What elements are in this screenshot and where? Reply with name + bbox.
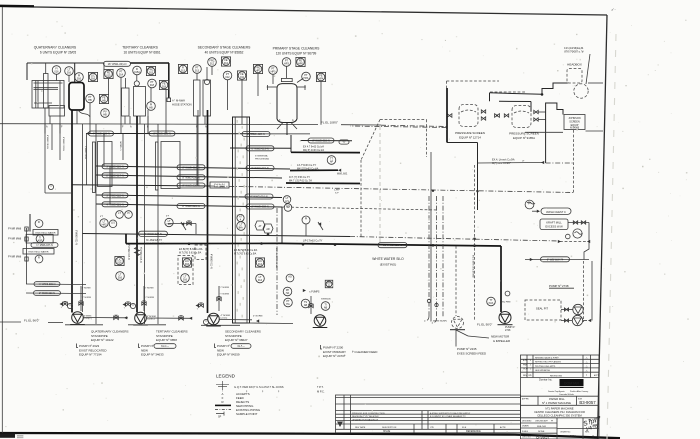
svg-text:FILE: FILE [462,427,467,429]
kraft mill valves [568,221,589,224]
svg-text:½″: ½″ [343,140,346,144]
svg-text:HB: HB [88,99,92,102]
pipe label oval 6" WB WW-74 [541,257,570,262]
svg-text:EXIST MILL WATER: EXIST MILL WATER [36,232,56,235]
svg-text:DWG. NO.: DWG. NO. [522,436,532,438]
primary vessel [267,78,306,135]
exist mill water box 2 [23,249,54,255]
svg-text:‽: ‽ [586,374,587,377]
instrument square FE-011 [237,71,246,80]
svg-text:EQUIP Nº 6858: EQUIP Nº 6858 [156,338,177,342]
wash chest label [532,208,571,214]
svg-text:NONE: NONE [538,431,545,433]
quaternary pump [60,301,129,324]
svg-text:SEAL PIT: SEAL PIT [536,307,548,311]
quaternary bank outer rect [32,81,64,109]
svg-text:B‽L: B‽L [529,374,532,377]
pipe run y185 to right side [72,185,573,193]
small circ near pump [500,291,511,303]
instrument square FE-HP0 [296,57,305,66]
seal pit box [525,300,561,320]
mill water riser [25,227,28,284]
instrument square FE-015 [104,69,113,78]
svg-text:16″ WW1-001-N: 16″ WW1-001-N [108,62,127,66]
svg-text:C=O(C): C=O(C) [147,319,155,321]
instrument square BW [325,280,333,288]
svg-text:8″ WW2-025-N: 8″ WW2-025-N [153,132,170,136]
tertiary cluster drops [125,88,166,134]
drawing border left [1,7,3,433]
mill water tap 1 label [8,228,22,231]
svg-text:016: 016 [67,72,72,75]
svg-text:016: 016 [91,78,96,81]
new motor leader [456,330,489,338]
instrument square FE-012 [221,57,230,66]
svg-text:EQUIP Nº 84259: EQUIP Nº 84259 [217,353,240,357]
vertical label q3 [62,137,64,151]
svg-text:PROCESS⁄3A: PROCESS⁄3A [255,158,269,161]
pipe run y166 [96,166,290,169]
svg-text:¾″ MW6-037-N: ¾″ MW6-037-N [36,244,53,247]
main run size text 1 [146,239,165,245]
svg-text:P‽ WR MW6: P‽ WR MW6 [8,256,22,259]
flex coupling zigzag [135,247,140,256]
svg-text:4″WW6: 4″WW6 [84,315,92,317]
svg-text:¾″ VALVE: ¾″ VALVE [120,140,123,150]
white water silo label [372,257,404,267]
mill water meter box [26,234,53,243]
svg-text:‽‽M: ‽‽M [523,363,527,366]
svg-text:APP‽‽D: APP‽‽D [522,398,530,401]
pipe label oval 4" WW2-021-N [102,202,128,207]
svg-text:EXCESS W.W: EXCESS W.W [545,225,563,229]
mill water tap 2 label [8,238,22,241]
tertiary drop 2 [147,110,149,134]
instrument bubble mid116 [116,272,125,281]
pipe run y195 [96,195,282,198]
svg-text:WWL 600.: WWL 600. [337,174,348,176]
valve line y223 [168,221,196,234]
new motor label [491,335,510,343]
instrument bubble PT-HB [86,94,95,103]
main run size text 3 [234,249,258,256]
svg-text:4″‽: 4″‽ [100,215,103,218]
pump 2738 label [549,284,574,288]
thick pipe y152 [291,151,360,153]
tertiary standpipe column [145,124,159,324]
pipe label oval mill 037 [31,243,58,248]
svg-text:CENTRI CLEANERS P& I DIAGRAM: CENTRI CLEANERS P& I DIAGRAM FOR [534,410,585,414]
drawing border right [598,15,608,439]
instrument square FRC-015 [146,66,155,75]
instrument bubble PT-HA [284,298,293,307]
svg-text:B CONN‽CT BY OTHER SEGMENT: B CONN‽CT BY OTHER SEGMENT ‽T⁄ [430,415,466,418]
pumps note [303,289,320,294]
secondary standpipe label [225,330,261,343]
mill water tap 3 label [8,256,22,259]
instrument square FI-013 [178,64,187,73]
instrument bubble AO [286,274,294,282]
kraft mill box [540,219,568,230]
svg-text:Pacifica Alba Cawnay: Pacifica Alba Cawnay [570,390,588,393]
svg-text:¾″ NORM: ¾″ NORM [220,286,230,289]
svg-text:HB: HB [103,114,107,117]
secondary cluster drops [197,67,242,187]
svg-text:PRESSURE SCREEN: PRESSURE SCREEN [455,131,485,135]
issue / reference table [336,395,521,433]
svg-text:4″WW2-033-N: 4″WW2-033-N [62,137,64,151]
svg-text:HOSE STATION: HOSE STATION [172,103,192,107]
tertiary bank rects [122,75,146,116]
svg-text:P⁄PING R⁄L FOR CONSTRUCTION: P⁄PING R⁄L FOR CONSTRUCTION [352,413,385,415]
svg-text:8″ WW2-026-N: 8″ WW2-026-N [182,204,199,208]
pipe run y175 [96,175,282,178]
pipe label oval 3" WW2-022-N [102,193,128,198]
screen dashed floor enclosure [350,81,525,128]
secondary bank rects [194,67,211,116]
svg-text:G.Q.T. PER DAY‽ U.S.G.P.M.‽ S: G.Q.T. PER DAY‽ U.S.G.P.M.‽ SL.CONS [234,385,284,389]
svg-text:△: △ [586,361,588,364]
instrument bubble FRC-012 [208,58,217,67]
svg-text:013: 013 [195,70,200,73]
svg-text:C‽D: C‽D [430,426,435,429]
svg-text:✓·: ✓· [611,7,616,12]
quaternary standpipe column [83,124,97,324]
svg-text:A STEEL SUPPORTS TO BE ⁄⁄: A STEEL SUPPORTS TO BE ⁄⁄L⁄T⁄M SUPPLY [430,412,471,415]
svg-text:‽‽: ‽‽ [551,420,553,423]
svg-text:‽PD‽TED DWG N‽‽‽L: ‽PD‽TED DWG N‽‽‽L [535,365,557,368]
upper existing run y233 [83,233,561,241]
svg-text:Nº34966: Nº34966 [570,126,580,130]
secondary pump fittings [203,286,229,325]
seal pit pump 1 [573,304,583,314]
svg-text:‽ CLEANER FEED: ‽ CLEANER FEED [352,350,378,354]
svg-text:HPA: HPA [319,78,324,81]
svg-text:CHECKED APP.: CHECKED APP. [535,420,549,423]
svg-text:LIS: LIS [285,200,289,203]
svg-text:HEADBOX: HEADBOX [567,63,582,67]
flag on y133 [86,132,89,135]
svg-text:3801: 3801 [570,434,576,438]
svg-text:Domtar Inc.: Domtar Inc. [539,378,553,382]
PI drop at x306 [302,216,310,236]
svg-text:PI: PI [127,212,130,215]
svg-text:REV DATE: REV DATE [355,426,366,429]
riser hooks small circles [427,299,438,306]
svg-text:6″ WB WW-74: 6″ WB WW-74 [547,257,564,261]
tertiary pump fittings [130,286,154,311]
headbox approach staircase [541,83,568,96]
svg-text:HA: HA [286,292,290,295]
instrument bubble FI mill 2 [35,255,43,263]
svg-text:1″ NORM: 1″ NORM [82,288,91,290]
svg-text:3″ WW2-026-N: 3″ WW2-026-N [106,164,123,168]
quaternary standpipe head (thick rounded rect) [69,83,84,111]
svg-text:018: 018 [162,86,167,89]
pipe run y148 [230,147,291,149]
svg-text:AB: AB [324,307,328,310]
svg-text:S⁄WW006: S⁄WW006 [321,299,331,301]
pressure screen 1 inlet valve [447,110,486,120]
secondary drop 2 [197,110,199,186]
svg-text:M P.C.: M P.C. [317,389,325,393]
quaternary drain hose curve [78,110,90,117]
svg-text:Domtar Pap Agenta: Domtar Pap Agenta [548,390,565,393]
svg-text:B3-9057: B3-9057 [579,400,596,405]
pressure screen 1 label [455,131,485,140]
sp note s-ww006 [321,299,331,301]
svg-text:△: △ [586,370,588,373]
svg-text:M. MTBS NL(M‽): M. MTBS NL(M‽) [430,320,447,323]
primary cluster drops [258,74,321,125]
svg-text:WHITE WATER SILO: WHITE WATER SILO [372,257,404,261]
svg-text:ORDER NO.: ORDER NO. [560,431,571,433]
svg-text:4″NORM: 4″NORM [147,316,156,318]
svg-text:LT: LT [118,212,121,215]
silo wall speckle [237,120,245,318]
svg-text:FI: FI [38,221,41,224]
svg-text:DESIGNED: DESIGNED [522,421,532,423]
corner registration mark [611,7,616,12]
svg-text:EQUIP Nº 2470‽: EQUIP Nº 2470‽ [323,354,346,358]
main run size text 4 [303,240,323,243]
hex AT-ALR [255,221,265,230]
svg-text:4″WW2-011-N: 4″WW2-011-N [210,254,212,269]
svg-text:2″ WW2-008-N: 2″ WW2-008-N [251,205,268,209]
svg-text:¾″: ¾″ [172,99,175,103]
svg-text:¾″ NORM: ¾″ NORM [220,293,230,296]
svg-text:⌀ Wa FEM: ⌀ Wa FEM [500,300,511,303]
pipe label oval 8" WW2-017-N [102,173,128,178]
main run size text 2 [179,248,203,255]
svg-text:¾″ NORM: ¾″ NORM [145,296,155,299]
quaternary feed drops [45,108,60,134]
svg-text:SECONDARY STAGE CLEANERS: SECONDARY STAGE CLEANERS [198,46,251,50]
svg-text:EX.B(78′) B.63 Cu.9⁄A: EX.B(78′) B.63 Cu.9⁄A [179,248,203,251]
quaternary standpipe label [91,330,129,343]
quaternary cleaners title [34,46,77,55]
hex AR-ALR [263,224,273,233]
pipe label oval 8" WW2-018-N [177,165,205,170]
pipe label oval 2" WW2-008-N [246,204,274,209]
instrument bubble TT-P2A [487,297,496,306]
pressure screen 1 body [459,105,478,127]
svg-text:Nº1 PAPER MACHINE: Nº1 PAPER MACHINE [545,406,573,410]
dashed enclosure secondary [195,245,206,260]
johnson screen box [564,115,585,130]
svg-text:(Cal-Sc-3+): (Cal-Sc-3+) [214,184,226,186]
silo pump downcomer [282,135,291,243]
svg-text:2748: 2748 [505,329,511,332]
oval feeder verticals [87,134,111,205]
svg-text:6″ WW2-013-N: 6″ WW2-013-N [251,146,268,150]
instrument bubble LT-HA top [237,214,246,230]
svg-text:M1-0 9M9.5 E9.3⁄Y⁄WD: M1-0 9M9.5 E9.3⁄Y⁄WD [472,255,474,278]
svg-text:10″WW2-023-N: 10″WW2-023-N [383,243,402,247]
svg-text:RE‽TED RELO‽‽ FLANGES: RE‽TED RELO‽‽ FLANGES [535,361,562,364]
instrument bubble TI mill [36,235,44,243]
instrument bubble PT-HPA [302,72,311,81]
instrument square LIC-016b [182,258,191,267]
svg-text:2″ WW2-020-N: 2″ WW2-020-N [39,292,55,295]
svg-text:¾″ WW6-036-N: ¾″ WW6-036-N [39,283,56,286]
instrument bubble PT-012 [223,71,232,80]
tertiary chest rect [156,142,181,191]
tertiary pump label [139,344,177,357]
exist screen feed pump (dashed) [430,317,465,330]
pipe label oval 3" WW2-026-N [102,164,128,169]
svg-text:M.P.⁄9M⁄27-0.3M⁄WD: M.P.⁄9M⁄27-0.3M⁄WD [275,248,277,268]
tertiary standpipe label [156,330,188,343]
svg-text:APP‽: APP‽ [594,374,599,377]
dashed arrows y241 [558,240,590,243]
dashed drop x474 [472,165,475,320]
double pipe x94 [93,142,96,193]
silo pump fittings [309,296,313,314]
vertical label s1 [210,254,212,269]
svg-text:016: 016 [54,71,59,74]
line EX 4 Lyons text [492,158,515,165]
svg-text:40 UNITS EQUIP Nº 85862: 40 UNITS EQUIP Nº 85862 [205,51,244,55]
svg-text:31-C—: 31-C— [161,345,169,348]
pump 2235 label [456,330,486,356]
branch to main run [125,234,127,244]
svg-text:EQUIP Nº 77194: EQUIP Nº 77194 [79,353,102,357]
svg-text:HB: HB [102,100,106,103]
quaternary cluster drops [50,63,121,134]
feed/accepts/reject letters tert [46,119,294,129]
svg-text:HP2: HP2 [256,70,261,73]
svg-text:LEGEND: LEGEND [216,374,236,379]
svg-text:FI: FI [38,257,41,260]
svg-text:HA: HA [239,227,243,230]
svg-text:M4.1 9M8 Cu.9⁄A: M4.1 9M8 Cu.9⁄A [146,243,165,246]
drawing border top [0,6,607,15]
svg-text:DRAWN: DRAWN [522,425,529,428]
johnson screen approach [538,103,563,163]
legend block [215,381,325,419]
instrument pair x104 [100,215,117,228]
pipe label oval 4" WW2-020-N [89,131,114,136]
quaternary manifold pipe [27,63,169,80]
svg-text:4″ NORM: 4″ NORM [253,315,262,317]
pressure screen 2 body [512,106,531,128]
svg-text:FEB ⁄344: FEB ⁄344 [537,426,547,428]
svg-text:012: 012 [224,62,229,65]
bottom-left film marker [0,434,24,439]
svg-text:PRIMARY STAGE CLEANERS: PRIMARY STAGE CLEANERS [273,47,320,51]
svg-text:4″‽: 4″‽ [166,215,169,218]
svg-text:SP: SP [218,416,222,419]
svg-text:AP: AP [330,161,334,164]
svg-text:P‽ WR MW6: P‽ WR MW6 [8,238,22,241]
primary pump label [321,345,379,358]
pressure screen 2 label [509,132,539,141]
screen to wash chest line [525,131,603,132]
svg-text:AC‽N: AC‽N [500,426,506,429]
svg-text:016: 016 [77,78,82,81]
seal pit valves [561,308,573,322]
quaternary lower frame [45,124,73,193]
sp tap y188 [334,190,340,195]
instrument square LIC mid116 [115,256,124,265]
instrument bubble FI-016 [52,66,61,75]
svg-text:R: R [221,400,223,404]
right column lines [546,162,574,164]
pipe label oval 8" WW2-015-N [308,138,334,143]
instrument square FE-HB [99,94,108,103]
instrument bubble PV-HB [101,109,110,118]
svg-text:013: 013 [181,70,186,73]
instrument square LIC-016 [88,72,97,81]
johnson screen drop [573,130,575,193]
pipe label oval 8" WW2-025-N [149,131,175,136]
svg-text:& IMPELLER: & IMPELLER [493,339,510,343]
pipe label oval 8" WW2-028-N [242,132,270,137]
white water silo wall [233,117,250,323]
svg-text:3×9⁄WW5⁄3A: 3×9⁄WW5⁄3A [255,155,268,158]
svg-text:EQUIP Nº 34633: EQUIP Nº 34633 [141,353,164,357]
text above y152 [303,146,325,153]
svg-text:HA3: HA3 [102,224,107,227]
screen accepts header upper [490,93,543,112]
svg-text:∊ PUMPS: ∊ PUMPS [309,291,320,294]
svg-text:Cawnada Wahola: Cawnada Wahola [559,394,575,396]
pipe run y140 [300,140,352,142]
junction dots main run [188,242,476,247]
instrument bubble PT-018 [148,79,157,88]
svg-text:REVISED VALVE & PIPE‽: REVISED VALVE & PIPE‽ [535,356,559,359]
svg-text:PUMP Nº 2235: PUMP Nº 2235 [457,347,477,351]
vertical label t1 [139,247,143,263]
svg-text:120 UNITS EQUIP Nº 96799: 120 UNITS EQUIP Nº 96799 [276,52,317,56]
svg-text:6″ WW2-016-N: 6″ WW2-016-N [250,195,267,199]
headbox label [567,63,582,67]
svg-text:4″ WW2-021-N: 4″ WW2-021-N [106,202,123,206]
svg-text:M4.7 (.5′) P.63 Cu.7⁄A: M4.7 (.5′) P.63 Cu.7⁄A [289,180,312,183]
vertical label q4 [84,146,86,160]
pipe run y284 [26,283,86,286]
pipe label oval 6" WW2-015-N2 [246,166,274,171]
svg-text:M4′(.5″)9×63 Cu.b⁄A: M4′(.5″)9×63 Cu.b⁄A [297,167,319,170]
svg-text:T‽-‽‽: T‽-‽‽ [523,368,528,371]
squiggle instrument [573,229,583,238]
seal pit outfall arrows [583,319,592,322]
floor line FL EL 90'0" [477,322,492,326]
pipe label oval 8" WW2-027-N [139,231,168,236]
svg-text:△: △ [586,357,588,360]
svg-text:L‽: L‽ [522,160,524,163]
svg-text:13¾(16⁄16)Eq.M.: 13¾(16⁄16)Eq.M. [564,46,584,50]
dashed instrument enclosure left [178,256,193,285]
svg-text:¾″ NORM: ¾″ NORM [82,296,92,299]
text 14-7 above y170 [297,164,319,170]
svg-text:4″WW2-019-N: 4″WW2-019-N [46,135,48,149]
svg-text:Nº.1 PAPER MACHINE: Nº.1 PAPER MACHINE [542,401,571,405]
svg-text:015: 015 [106,75,111,78]
svg-text:EX.B(79′)′B.63 Cu.9⁄A: EX.B(79′)′B.63 Cu.9⁄A [234,249,258,252]
screen interconnect valve [495,114,500,118]
svg-text:C=O(C): C=O(C) [84,318,92,320]
svg-text:(EXISTING): (EXISTING) [380,263,397,267]
instrument bubble FI-015A [133,66,142,75]
svg-text:HPA: HPA [304,77,309,80]
primary cleaners title [273,47,320,56]
pipe label hex right [339,140,349,144]
svg-text:011: 011 [240,76,245,79]
pipe label oval 2" WW2-020-N3 [34,291,61,296]
svg-text:014: 014 [258,263,263,266]
